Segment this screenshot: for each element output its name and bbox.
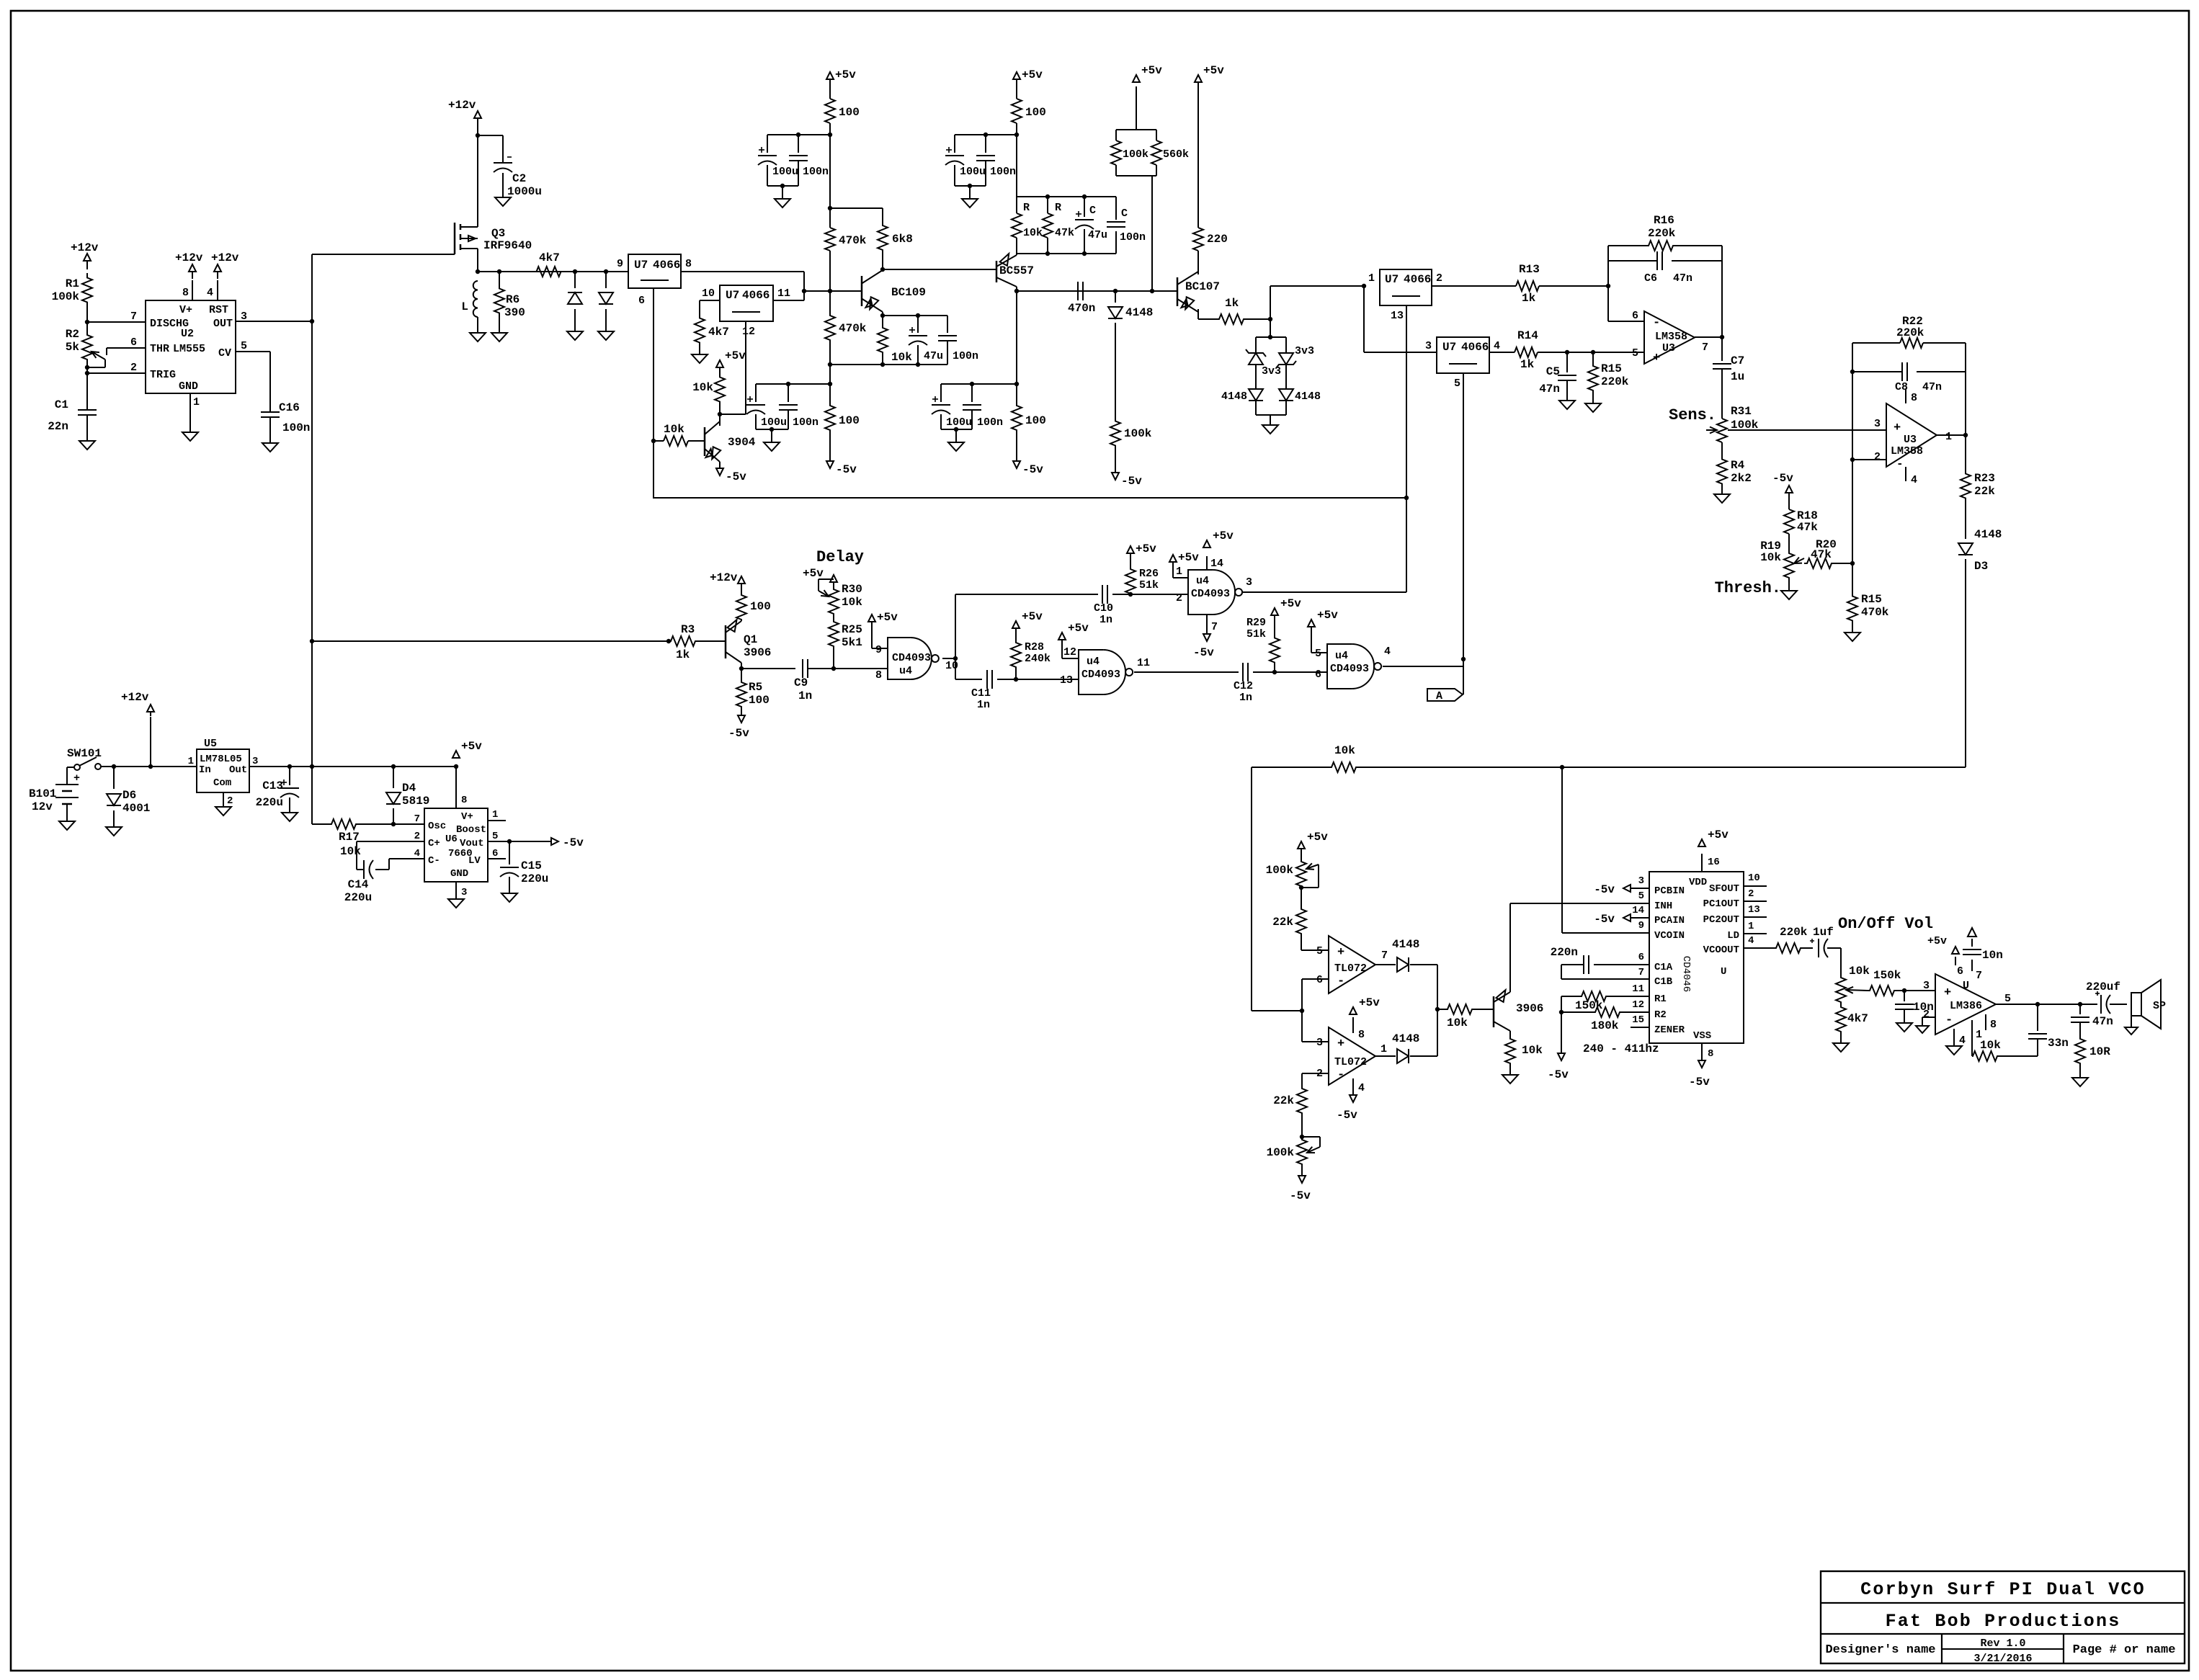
- svg-text:LM358: LM358: [1891, 445, 1923, 457]
- svg-text:In: In: [199, 764, 211, 776]
- ground zener network: [1262, 415, 1278, 434]
- resistor R 47k right osc: [1043, 197, 1074, 254]
- feedback R16 220k: [1608, 214, 1722, 337]
- svg-text:100n: 100n: [990, 166, 1016, 178]
- wire 4066 pin8 loop: [681, 272, 804, 300]
- svg-text:D3: D3: [1974, 560, 1988, 573]
- svg-text:100u: 100u: [960, 166, 986, 178]
- svg-text:100k: 100k: [52, 290, 80, 303]
- svg-text:14: 14: [1632, 905, 1644, 916]
- svg-text:LV: LV: [468, 855, 481, 867]
- svg-text:3906: 3906: [744, 646, 771, 659]
- svg-text:100: 100: [839, 414, 860, 427]
- wire BC109 base: [802, 289, 862, 293]
- potentiometer 10k volume: [1836, 965, 1870, 1006]
- wire 6k8 branch: [830, 208, 883, 225]
- svg-text:100: 100: [749, 694, 770, 707]
- CD4046 pin numbers: [1632, 857, 1760, 1060]
- capacitor 100n bypass left-bottom: [779, 384, 819, 429]
- wire to 100u/100n pair right-top: [955, 133, 1017, 137]
- capacitor 100u bypass left-top: [758, 135, 798, 186]
- ground bypass left-bottom: [764, 431, 780, 451]
- svg-text:220k: 220k: [1780, 926, 1808, 939]
- battery B101 12v: [29, 772, 80, 821]
- svg-text:Delay: Delay: [816, 548, 864, 566]
- svg-text:100n: 100n: [977, 416, 1003, 429]
- wire 4066D pin5 control to A node: [1461, 373, 1466, 661]
- power -5v TL072 pin4: [1337, 1095, 1357, 1122]
- svg-text:-5v: -5v: [1193, 646, 1214, 659]
- svg-text:SP: SP: [2153, 1000, 2166, 1012]
- svg-text:100: 100: [839, 106, 860, 119]
- capacitor 47n zobel: [2071, 1004, 2113, 1036]
- svg-text:+: +: [1337, 1037, 1344, 1051]
- svg-text:1: 1: [492, 809, 498, 821]
- resistor R 10k right osc: [1012, 202, 1043, 239]
- ground bypass left-top: [775, 186, 790, 207]
- svg-text:+12v: +12v: [175, 251, 203, 264]
- svg-text:R: R: [1023, 202, 1030, 214]
- svg-text:4k7: 4k7: [1847, 1012, 1868, 1025]
- svg-text:10R: 10R: [2089, 1045, 2110, 1058]
- svg-text:11: 11: [1632, 983, 1644, 995]
- svg-text:U5: U5: [204, 738, 217, 750]
- CD4046 LD stub: [1744, 933, 1767, 934]
- label Q3 IRF9640: [483, 227, 532, 252]
- wire delay input: [312, 639, 671, 643]
- wire C9 node to gate pin8: [834, 668, 888, 669]
- svg-text:Com: Com: [213, 777, 231, 789]
- power +12v RST pin4: [211, 251, 239, 300]
- LM386 pin4 ground: [1946, 1029, 1966, 1055]
- capacitor 100u bypass right-top: [945, 135, 986, 186]
- wire BC109 emitter node: [880, 312, 947, 326]
- svg-text:R3: R3: [681, 623, 695, 636]
- svg-text:GND: GND: [179, 380, 198, 393]
- LM386 pin7 bypass: [1963, 928, 2003, 982]
- svg-text:100k: 100k: [1124, 427, 1152, 440]
- svg-text:220uf: 220uf: [2086, 980, 2120, 993]
- svg-text:4148: 4148: [1221, 390, 1247, 403]
- capacitor C9 1n: [794, 659, 836, 702]
- svg-text:240k: 240k: [1025, 653, 1051, 665]
- power +5v gate4 pin5: [1308, 609, 1338, 653]
- wire R3 to Q1 base: [697, 640, 726, 642]
- svg-text:3: 3: [252, 756, 258, 767]
- CD4046 ZENER stub: [1631, 1027, 1649, 1028]
- svg-text:8: 8: [1990, 1019, 1997, 1031]
- svg-text:51k: 51k: [1246, 628, 1266, 640]
- wire BC557 collector column down: [1014, 291, 1019, 403]
- svg-text:12: 12: [742, 326, 755, 338]
- resistor pair 100k/560k rails: [1116, 86, 1156, 291]
- svg-text:1: 1: [193, 396, 200, 408]
- svg-text:13: 13: [1391, 310, 1404, 322]
- svg-text:12v: 12v: [32, 800, 53, 813]
- svg-text:4: 4: [1748, 935, 1754, 947]
- power -5v TL072b pot: [1290, 1167, 1311, 1202]
- svg-text:OUT: OUT: [213, 318, 233, 330]
- svg-text:2: 2: [1436, 272, 1442, 285]
- power +12v V+ pin8: [175, 251, 203, 300]
- wire zener node down: [1268, 319, 1272, 339]
- wire C11 to gate3 pin13: [1016, 679, 1079, 680]
- label Sens.: [1669, 406, 1716, 424]
- wire emitter network bottom rail: [828, 354, 947, 367]
- capacitor 100n bypass right-top: [976, 135, 1016, 186]
- wire gate2 pin14 +5v: [1203, 530, 1234, 570]
- wire to 100u/100n pair top-left: [767, 133, 830, 137]
- svg-text:BC107: BC107: [1185, 280, 1220, 293]
- U6 Boost pin1 stub: [488, 820, 506, 821]
- U2 pin numbers: [130, 287, 247, 408]
- label On/Off Vol: [1838, 915, 1933, 933]
- wire control line y=691: [654, 496, 1409, 500]
- ground diode a: [567, 331, 583, 340]
- wire TRIG node: [85, 365, 146, 375]
- capacitor C12 1n: [1234, 663, 1277, 704]
- svg-text:C: C: [1089, 205, 1096, 217]
- ground 4k7 volume: [1833, 1033, 1849, 1052]
- svg-text:5: 5: [1632, 347, 1638, 359]
- svg-text:+12v: +12v: [121, 691, 149, 704]
- wire R14 to opamp pin5: [1538, 350, 1644, 354]
- wire 6k8 to BC109 collector: [880, 251, 885, 272]
- svg-text:-: -: [1896, 457, 1904, 470]
- svg-text:100k: 100k: [1266, 864, 1294, 877]
- power -5v VSS: [1689, 1043, 1710, 1089]
- wire 150k to pin3 node: [1896, 988, 1935, 993]
- svg-text:U2: U2: [181, 328, 194, 340]
- svg-text:1k: 1k: [1520, 358, 1535, 371]
- svg-text:C1B: C1B: [1654, 976, 1673, 988]
- svg-text:Osc: Osc: [428, 821, 446, 832]
- svg-text:-5v: -5v: [728, 727, 749, 740]
- svg-text:Q3: Q3: [491, 227, 505, 240]
- wire junction down to opamp pin6: [1608, 286, 1644, 321]
- wire summing node to 10k: [1435, 1007, 1447, 1011]
- svg-text:470k: 470k: [839, 234, 867, 247]
- svg-text:10k: 10k: [340, 845, 361, 858]
- svg-text:CD4093: CD4093: [1191, 588, 1230, 600]
- diode D3 4148: [1958, 500, 2002, 573]
- svg-text:LM78L05: LM78L05: [200, 754, 242, 765]
- svg-text:15: 15: [1632, 1014, 1644, 1026]
- power +5v rail arrow: [452, 740, 482, 758]
- power -5v 100k right: [1112, 452, 1142, 488]
- diode 4148 right clamp: [1279, 389, 1321, 403]
- wire 3904 emitter: [719, 462, 721, 468]
- wire bypass pair bottom right-top: [955, 184, 986, 188]
- wire bypass pair bottom left-top: [767, 184, 798, 188]
- wire drain node: [476, 269, 628, 274]
- power +5v R30: [803, 567, 837, 585]
- svg-text:4148: 4148: [1392, 1032, 1419, 1045]
- ground B101: [59, 821, 75, 830]
- NAND gate u4 CD4093 fourth: [1315, 644, 1391, 689]
- capacitor 100u bypass left-bottom: [746, 384, 787, 429]
- power +5v R26: [1127, 542, 1156, 568]
- svg-text:5k1: 5k1: [842, 636, 862, 649]
- svg-text:4148: 4148: [1125, 306, 1153, 319]
- svg-text:+5v: +5v: [1307, 831, 1328, 844]
- capacitor 470n: [1068, 282, 1095, 315]
- diode D6 4001: [107, 767, 150, 827]
- feedback capacitor C8 47n: [1852, 362, 1966, 393]
- capacitor 100n bypass left-top: [789, 135, 829, 186]
- svg-text:C13: C13: [262, 779, 283, 792]
- svg-text:U7: U7: [1385, 273, 1399, 286]
- feedback capacitor C6 47n: [1608, 246, 1722, 285]
- svg-text:2: 2: [414, 831, 420, 842]
- wire R13 to junction: [1539, 284, 1610, 288]
- svg-text:VSS: VSS: [1693, 1030, 1711, 1042]
- svg-text:-5v: -5v: [563, 836, 584, 849]
- svg-text:+5v: +5v: [1178, 551, 1199, 564]
- svg-text:C16: C16: [279, 401, 300, 414]
- resistor R29 51k: [1246, 617, 1280, 672]
- svg-text:Thresh.: Thresh.: [1715, 579, 1781, 597]
- transistor Q1 3906 PNP: [726, 620, 771, 663]
- ground C16: [262, 443, 278, 452]
- transistor Q3 IRF9640 p-channel MOSFET: [455, 223, 478, 272]
- svg-text:C2: C2: [512, 172, 526, 185]
- power +5v gate1 pin9: [868, 611, 898, 648]
- svg-text:4148: 4148: [1974, 528, 2002, 541]
- potentiometer R31 100k Sens: [1706, 405, 1759, 442]
- svg-text:1uf: 1uf: [1813, 926, 1834, 939]
- svg-text:+5v: +5v: [1022, 610, 1043, 623]
- svg-text:10: 10: [945, 660, 958, 672]
- power +5v left osc: [826, 68, 856, 99]
- ground C2: [495, 197, 511, 206]
- svg-text:4: 4: [414, 848, 420, 859]
- power +12v for R1: [71, 241, 99, 269]
- CD4046 PC2OUT stub: [1744, 916, 1767, 918]
- capacitor C 47u right osc: [1075, 197, 1107, 254]
- svg-text:8: 8: [182, 287, 189, 299]
- diode D4 5819: [386, 767, 429, 826]
- svg-text:SW101: SW101: [67, 747, 102, 760]
- resistor R15 220k: [1588, 352, 1629, 394]
- svg-text:6: 6: [1315, 669, 1321, 681]
- wire battery to switch: [67, 767, 74, 785]
- wire pin2 down to threshold node: [1850, 460, 1855, 593]
- svg-text:TRIG: TRIG: [150, 369, 176, 381]
- ground R15 470k: [1845, 624, 1860, 641]
- svg-text:4001: 4001: [122, 802, 150, 815]
- IC U7 4066 switch D (pins 3/4/5): [1425, 337, 1500, 390]
- svg-text:R16: R16: [1654, 214, 1674, 227]
- transistor BC557 PNP: [996, 254, 1034, 287]
- U6 LV pin6 stub: [488, 858, 506, 859]
- diode 4148 left clamp: [1221, 389, 1263, 403]
- ground U5: [215, 807, 231, 816]
- wire 470n row: [1017, 289, 1177, 293]
- svg-text:10k: 10k: [1980, 1039, 2001, 1052]
- svg-text:PCBIN: PCBIN: [1654, 885, 1685, 897]
- resistor 10R zobel: [2075, 1036, 2110, 1066]
- svg-text:U7: U7: [1442, 341, 1456, 354]
- resistor 22k TL072b: [1273, 1088, 1307, 1114]
- svg-text:PC2OUT: PC2OUT: [1703, 914, 1739, 926]
- svg-text:100u: 100u: [946, 416, 972, 429]
- svg-text:100: 100: [750, 600, 771, 613]
- svg-text:C1A: C1A: [1654, 962, 1673, 973]
- svg-text:C+: C+: [428, 838, 440, 849]
- wire U6 GND pin3: [455, 882, 457, 899]
- title text Corbyn Surf PI Dual VCO: [1860, 1579, 2146, 1600]
- svg-text:+12v: +12v: [71, 241, 99, 254]
- wire U5 out +5v rail: [249, 764, 458, 769]
- svg-text:-5v: -5v: [1689, 1076, 1710, 1089]
- svg-text:-: -: [1337, 975, 1344, 988]
- svg-text:On/Off Vol: On/Off Vol: [1838, 915, 1933, 933]
- wire gain loop to 33n: [1998, 1055, 2038, 1057]
- potentiometer 100k TL072a: [1266, 860, 1319, 890]
- svg-text:u4: u4: [1335, 650, 1348, 662]
- svg-text:5: 5: [1454, 377, 1460, 390]
- ground C5: [1559, 401, 1575, 409]
- wire output riser to C10 row: [955, 594, 1098, 658]
- svg-text:2: 2: [1176, 592, 1182, 604]
- svg-text:CD4093: CD4093: [1081, 669, 1120, 681]
- svg-text:VDD: VDD: [1689, 877, 1707, 888]
- resistor 100 top left osc: [825, 99, 860, 123]
- svg-text:2: 2: [1748, 888, 1754, 900]
- ground bypass right-top: [962, 186, 978, 207]
- wire gate3 output to C12: [1134, 671, 1239, 673]
- svg-text:+5v: +5v: [835, 68, 856, 81]
- svg-text:1: 1: [1380, 1043, 1387, 1055]
- svg-text:100: 100: [1025, 414, 1046, 427]
- svg-text:13: 13: [1060, 674, 1073, 687]
- ground C1: [79, 441, 95, 450]
- svg-text:3: 3: [1246, 576, 1252, 589]
- svg-text:5: 5: [492, 831, 498, 842]
- svg-text:L: L: [461, 300, 468, 313]
- svg-text:9: 9: [1638, 920, 1644, 931]
- svg-text:10k: 10k: [1849, 965, 1870, 978]
- svg-text:-5v: -5v: [1594, 913, 1615, 926]
- svg-text:7: 7: [1702, 341, 1708, 354]
- ground speaker: [0, 0, 1, 1]
- svg-text:22k: 22k: [1974, 485, 1995, 498]
- svg-text:-: -: [1945, 1014, 1953, 1027]
- svg-text:2: 2: [1923, 1009, 1930, 1021]
- resistor 100 bottom left osc: [825, 403, 860, 432]
- resistor R3 1k: [669, 623, 697, 661]
- svg-text:1n: 1n: [1099, 614, 1112, 626]
- svg-text:220u: 220u: [256, 796, 283, 809]
- svg-text:3: 3: [1638, 875, 1644, 887]
- ground L: [470, 333, 486, 341]
- svg-text:D4: D4: [402, 782, 416, 795]
- resistor 100k below 4148: [1110, 414, 1152, 452]
- LM386 pin6 +5v: [1927, 935, 1963, 978]
- wire gate feed: [312, 254, 455, 255]
- svg-text:470k: 470k: [839, 322, 867, 335]
- resistor 470k upper: [825, 228, 867, 251]
- resistor 560k pullup: [1151, 140, 1189, 165]
- title text Fat Bob Productions: [1886, 1611, 2121, 1632]
- svg-text:U3: U3: [1904, 434, 1917, 446]
- resistor R25 5k1: [829, 618, 862, 669]
- svg-text:4066: 4066: [1404, 273, 1431, 286]
- speaker SP: [2131, 980, 2166, 1029]
- svg-text:11: 11: [777, 287, 790, 300]
- wire 470k to base node: [828, 251, 832, 293]
- svg-text:C8: C8: [1895, 381, 1908, 393]
- svg-text:+5v: +5v: [1213, 530, 1234, 542]
- wire RC network rails: [1017, 195, 1116, 256]
- svg-text:10k: 10k: [1447, 1017, 1468, 1029]
- wire feedback line 10k row: [1252, 765, 1966, 769]
- resistor 4k7 (to 4066 pin 9): [533, 251, 564, 277]
- svg-text:R2: R2: [66, 328, 79, 341]
- svg-text:10k: 10k: [664, 423, 684, 436]
- svg-text:1k: 1k: [1225, 297, 1239, 310]
- ground R6: [491, 333, 507, 341]
- svg-text:220u: 220u: [344, 891, 372, 904]
- svg-text:+5v: +5v: [803, 567, 824, 580]
- ground zobel: [2072, 1066, 2088, 1086]
- power -5v output arrow: [541, 836, 584, 849]
- svg-text:U6: U6: [445, 834, 458, 845]
- zener diode 3v3 left: [1246, 349, 1281, 377]
- svg-text:C12: C12: [1234, 680, 1253, 692]
- svg-text:10k: 10k: [1760, 551, 1781, 564]
- power +5v R28: [1012, 610, 1043, 640]
- wire C12 to gate4 pin6: [1275, 671, 1327, 673]
- svg-text:1000u: 1000u: [507, 185, 542, 198]
- wire C14 to C- pin4: [375, 859, 424, 870]
- resistor 1k emitter BC107: [1217, 297, 1246, 324]
- svg-text:100n: 100n: [803, 166, 829, 178]
- power +5v VDD: [1698, 828, 1729, 872]
- svg-text:470n: 470n: [1068, 302, 1095, 315]
- CD4046 SFOUT stub: [1744, 885, 1767, 887]
- svg-text:BC557: BC557: [999, 264, 1034, 277]
- wire wiper run to LM358 pin3: [0, 0, 1, 1]
- wire gate1 output: [942, 656, 958, 661]
- svg-text:5: 5: [1316, 945, 1323, 957]
- svg-text:100: 100: [1025, 106, 1046, 119]
- svg-text:-5v: -5v: [1337, 1109, 1357, 1122]
- wire LM386 output: [1996, 1002, 2097, 1006]
- inductor L: [461, 281, 478, 333]
- svg-text:100u: 100u: [772, 166, 798, 178]
- wire pin2 TL072b: [1302, 1073, 1329, 1088]
- svg-text:100k: 100k: [1123, 148, 1148, 161]
- IC U CD4046 box: [1649, 872, 1744, 1043]
- svg-text:SFOUT: SFOUT: [1709, 883, 1739, 895]
- CD4046 PC1OUT stub: [1744, 901, 1767, 902]
- svg-text:47n: 47n: [1539, 383, 1560, 396]
- LM386 pin8 stub: [1986, 1014, 1997, 1031]
- wire gate2 output to control riser: [1243, 498, 1406, 592]
- svg-text:1: 1: [1945, 431, 1952, 443]
- svg-text:8: 8: [685, 258, 692, 270]
- op-amp U3 LM358 first: [1632, 310, 1708, 365]
- svg-text:4: 4: [1384, 645, 1391, 658]
- IC U7 4066 switch C (pins 1/2/13): [1368, 269, 1442, 322]
- svg-text:+: +: [1653, 352, 1660, 365]
- capacitor 100n bypass right-bottom: [963, 384, 1003, 429]
- svg-text:-5v: -5v: [1121, 475, 1142, 488]
- wire Q1 collector node: [739, 663, 795, 682]
- wire feedback right drop to VCOIN: [1562, 767, 1649, 933]
